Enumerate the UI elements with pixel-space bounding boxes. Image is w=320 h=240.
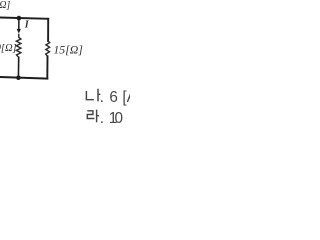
svg-text:15[Ω]: 15[Ω] [53, 43, 83, 57]
svg-text:6: 6 [109, 89, 118, 106]
svg-text:0[Ω]: 0[Ω] [0, 43, 17, 54]
svg-text:10: 10 [109, 110, 123, 127]
svg-text:.: . [100, 110, 104, 127]
svg-text:I: I [24, 19, 30, 30]
svg-text:.: . [100, 89, 104, 106]
svg-text:[A: [A [122, 89, 130, 106]
svg-text:Ω]: Ω] [0, 0, 10, 11]
